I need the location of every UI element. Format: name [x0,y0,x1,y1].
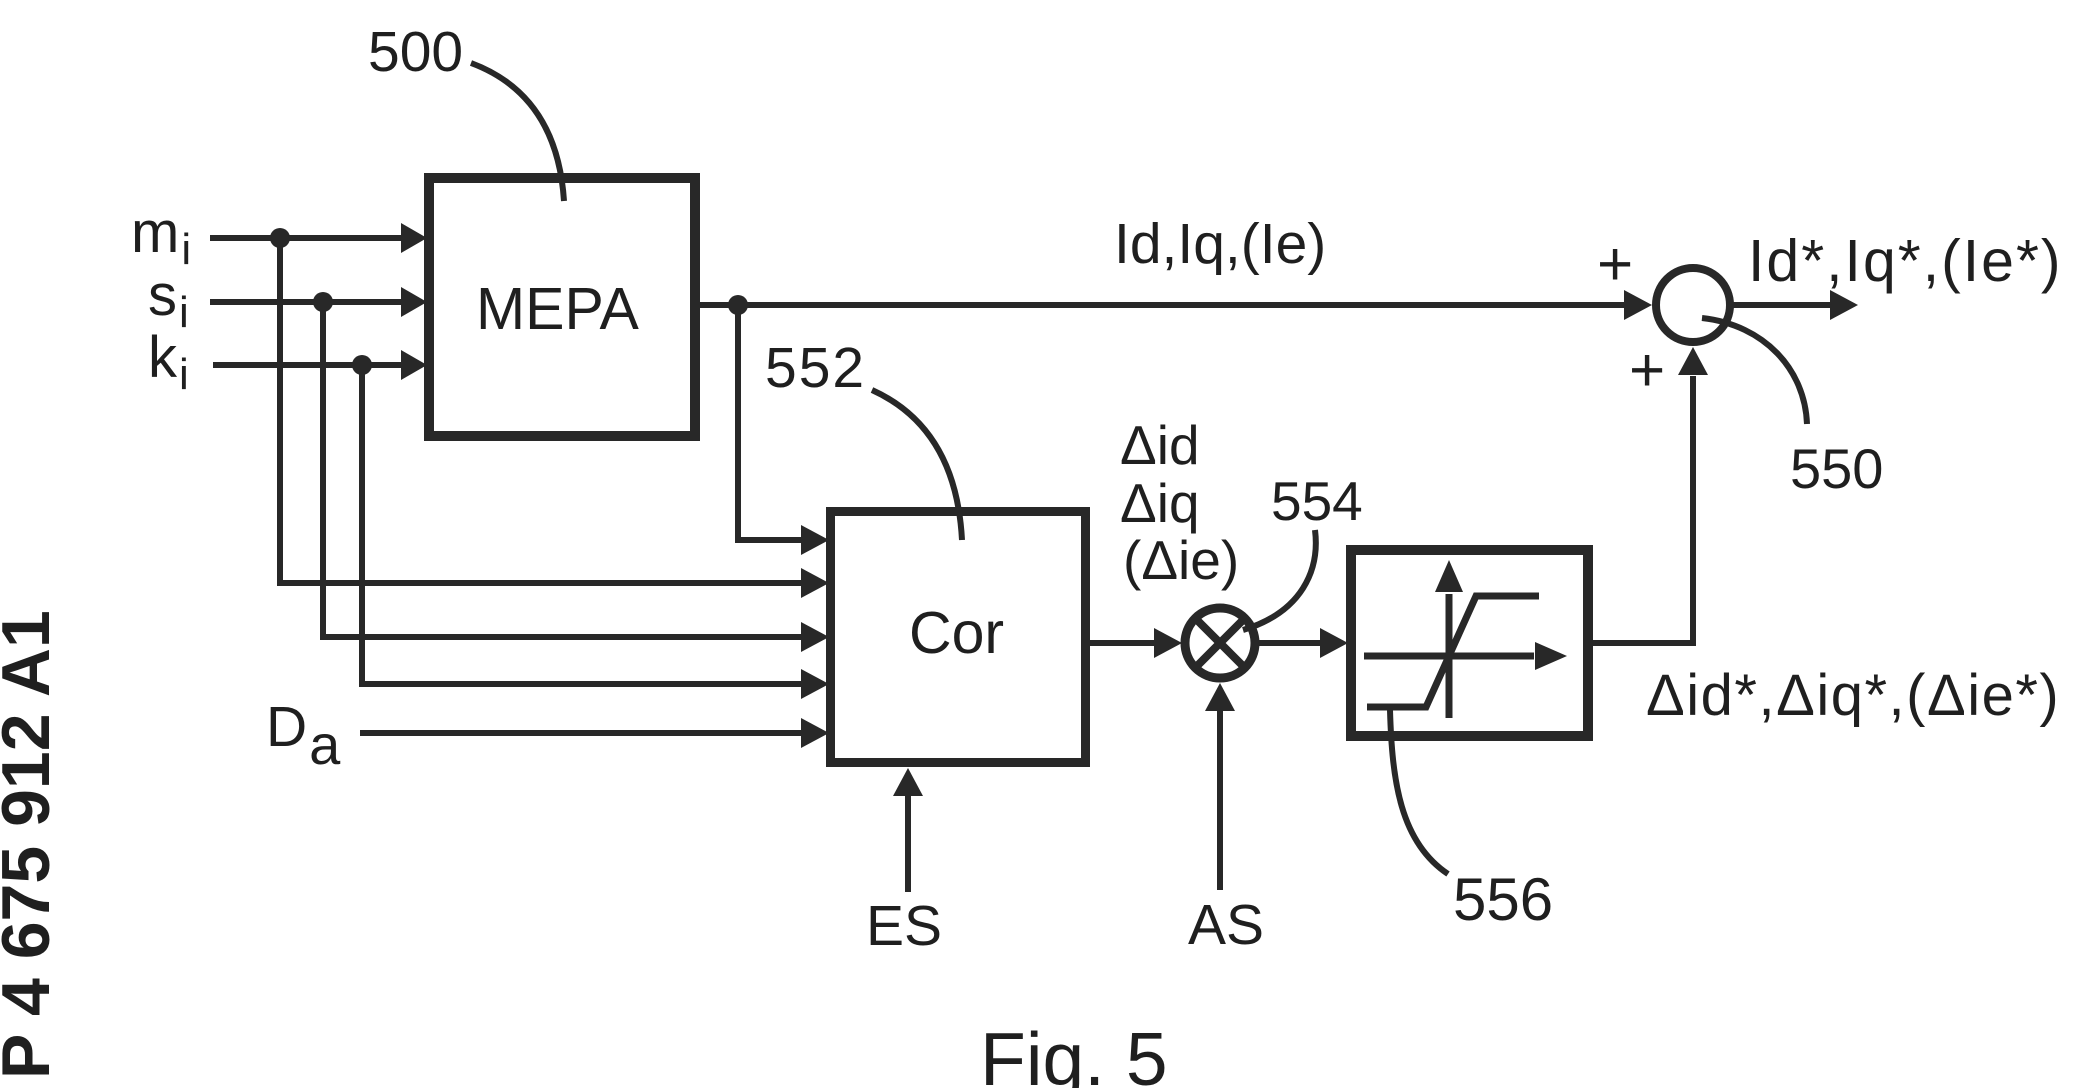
svg-text:552: 552 [765,336,866,400]
svg-text:AS: AS [1188,893,1264,957]
svg-text:Id*,Iq*,(Ie*): Id*,Iq*,(Ie*) [1748,228,2063,294]
svg-text:ES: ES [866,894,942,958]
svg-text:Δid*,Δiq*,(Δie*): Δid*,Δiq*,(Δie*) [1646,663,2060,728]
svg-text:500: 500 [368,20,463,84]
svg-text:Fig. 5: Fig. 5 [980,1017,1168,1088]
svg-text:P 4 675 912 A1: P 4 675 912 A1 [0,610,64,1079]
svg-text:(Δie): (Δie) [1123,529,1239,591]
svg-text:Δiq: Δiq [1120,472,1200,534]
svg-text:556: 556 [1453,866,1553,933]
svg-text:Cor: Cor [909,600,1004,666]
svg-text:Δid: Δid [1120,414,1200,476]
svg-text:+: + [1597,230,1633,299]
svg-text:MEPA: MEPA [476,276,639,342]
svg-text:+: + [1629,336,1665,405]
svg-text:550: 550 [1790,437,1883,500]
svg-text:Id,Iq,(Ie): Id,Iq,(Ie) [1114,212,1326,276]
svg-text:554: 554 [1271,470,1363,532]
